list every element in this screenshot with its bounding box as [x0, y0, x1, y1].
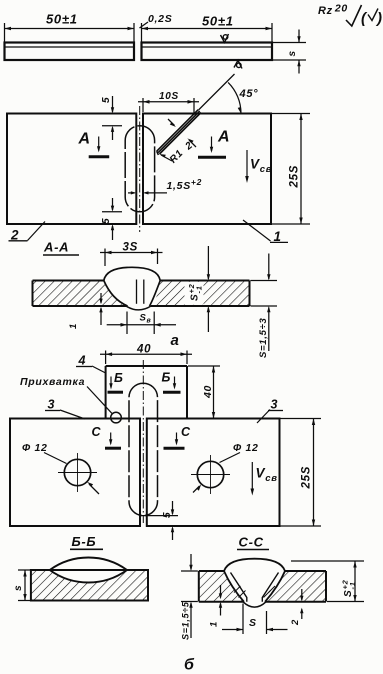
svg-text:A: A [217, 129, 230, 146]
wedge hatch strokes right [264, 586, 276, 598]
svg-text:С: С [92, 425, 102, 439]
joint centerline (dash-dot) [139, 106, 141, 232]
bar outline B-B [31, 570, 148, 601]
wedge hatch strokes left [234, 586, 246, 598]
plate right (top view) [142, 43, 273, 61]
plate 3 right (plan) [147, 419, 280, 527]
dimension 1 C-C [209, 585, 223, 627]
dimension S+2-1 right C-C [291, 561, 364, 602]
VIEW1 [5, 3, 383, 74]
svg-text:Vсв: Vсв [250, 157, 272, 176]
dimension S+2-1 [187, 246, 210, 332]
dimension 2 root C-C [290, 589, 304, 626]
surface roughness Rz20 note [318, 3, 383, 28]
svg-text:(: ( [361, 10, 368, 27]
dimension 5 top [101, 96, 122, 140]
svg-text:): ) [375, 10, 383, 27]
lens outline [50, 557, 127, 582]
svg-text:Б: Б [162, 371, 172, 385]
bar outline [33, 281, 250, 307]
svg-text:3: 3 [48, 398, 56, 412]
svg-text:3S: 3S [123, 242, 138, 254]
section title C-C [237, 535, 269, 550]
weld slot outline view3 (dashed stadium) [129, 383, 158, 515]
weld slot outline (stadium, dashed) [125, 126, 154, 212]
svg-text:А-А: А-А [43, 240, 69, 255]
section title B-B [70, 534, 103, 549]
SECTION-CC [181, 535, 365, 674]
svg-text:Sв: Sв [140, 313, 152, 325]
gap for tolerance text [185, 282, 204, 305]
VIEW2 [7, 74, 310, 244]
dimension Sv root width [107, 312, 176, 335]
angle 45 deg [228, 82, 258, 113]
svg-text:-1: -1 [195, 285, 204, 293]
svg-text:25S: 25S [301, 466, 313, 490]
section marker A left [78, 131, 110, 157]
item label 2 [9, 222, 46, 243]
electrode tip radius R1 callout [159, 148, 185, 166]
plate left (top view) [5, 43, 135, 61]
svg-text:A: A [78, 131, 91, 148]
electrode diameter 2 callout [168, 119, 196, 153]
svg-text:Прихватка: Прихватка [20, 376, 85, 388]
svg-text:50±1: 50±1 [202, 14, 234, 29]
root bulge [126, 306, 151, 310]
dimension 50±1 right [142, 14, 273, 42]
groove face line right [262, 573, 278, 602]
hatched bar C-C right [265, 571, 326, 602]
svg-text:50±1: 50±1 [46, 12, 78, 27]
fusion boundary left [104, 281, 128, 307]
item label 4 [76, 354, 106, 374]
hole right F12 [191, 442, 259, 494]
svg-text:R1: R1 [168, 148, 186, 166]
bar outline C-C [199, 571, 326, 602]
svg-text:5: 5 [101, 218, 112, 224]
section marker B right [162, 371, 181, 393]
svg-text:Ф 12: Ф 12 [22, 442, 48, 454]
dimension 5 bottom [101, 198, 122, 240]
section marker C right [164, 425, 192, 448]
fusion boundary right [150, 281, 161, 307]
plate 2 (left, plan view) [7, 114, 136, 225]
VIEW3 [10, 344, 321, 541]
svg-text:1,5S+2: 1,5S+2 [167, 177, 203, 192]
dimension 5 slot bottom [139, 501, 178, 540]
svg-text:45°: 45° [239, 88, 259, 100]
note S=1,5-5 left C-C [181, 554, 198, 640]
dimension s right [273, 30, 306, 74]
svg-text:Vсв: Vсв [256, 466, 278, 485]
weld cap dome C-C [224, 559, 285, 571]
svg-text:С: С [181, 425, 191, 439]
section title A-A [43, 240, 79, 256]
section marker C left [92, 425, 122, 448]
tack weld lens white [50, 557, 127, 582]
dimension S bottom C-C [222, 604, 288, 635]
svg-text:1: 1 [68, 323, 79, 329]
dimension 1,5S+2 gap [128, 177, 202, 195]
svg-text:5: 5 [101, 97, 112, 103]
SECTION-AA [33, 240, 278, 359]
groove face line left [231, 573, 247, 602]
tack weld callout [20, 376, 112, 414]
svg-text:4: 4 [78, 354, 87, 368]
electrode rod at 45deg [157, 74, 235, 155]
svg-text:Б-Б: Б-Б [72, 534, 97, 549]
fusion boundary right C-C [265, 571, 285, 602]
svg-text:s: s [287, 50, 298, 56]
svg-text:40: 40 [202, 385, 214, 399]
slot channel walls [137, 280, 144, 304]
item label 3 left [45, 398, 85, 420]
hatched plate section left [33, 281, 128, 307]
machining mark top surface [221, 34, 229, 43]
plate 3 left (plan) [10, 419, 140, 527]
SECTION-BB [13, 534, 148, 601]
svg-text:2: 2 [290, 619, 301, 626]
svg-text:S: S [343, 590, 354, 597]
item label 3 right [257, 398, 283, 424]
svg-text:Rz20: Rz20 [318, 3, 348, 18]
svg-text:3: 3 [271, 398, 279, 412]
svg-text:S=1,5÷3: S=1,5÷3 [258, 317, 269, 358]
svg-text:Ф 12: Ф 12 [233, 442, 259, 454]
svg-text:5: 5 [162, 512, 173, 518]
welding direction Vsv view3 [251, 462, 278, 496]
svg-text:40: 40 [136, 344, 151, 356]
section marker A right [198, 129, 230, 158]
svg-text:б: б [184, 657, 195, 674]
hatched plate section right [150, 281, 250, 307]
svg-text:1: 1 [209, 621, 220, 627]
svg-text:2: 2 [183, 140, 195, 153]
dimension 0,2S gap [140, 13, 173, 42]
weld cap dome [104, 267, 160, 280]
svg-text:0,2S: 0,2S [148, 13, 172, 25]
svg-text:а: а [171, 332, 180, 349]
note S=1,5..3 right [251, 254, 278, 359]
dimension 1 root left [68, 293, 103, 329]
hatched bar C-C left [199, 571, 244, 602]
svg-text:-1: -1 [348, 581, 357, 589]
svg-text:Б: Б [114, 371, 124, 385]
tack weld circle [111, 412, 122, 423]
hatched bar B-B [31, 570, 148, 601]
dimension 10S [138, 91, 199, 115]
svg-text:10S: 10S [159, 91, 179, 102]
dimension 3S [100, 242, 163, 267]
item label 1 [243, 220, 288, 244]
run-on tab plate 4 [106, 366, 187, 419]
svg-text:С-С: С-С [239, 535, 264, 550]
joint centerline view3 [142, 360, 144, 523]
welding direction Vsv [245, 150, 272, 183]
weld white area C-C [224, 559, 285, 602]
dimension 40 top [100, 344, 192, 365]
dimension 40 right vertical [188, 366, 220, 419]
machining mark bottom surface [234, 60, 242, 68]
dimension 50±1 left [5, 12, 135, 42]
svg-text:S: S [249, 617, 257, 629]
plate 1 (right, plan view) [143, 114, 271, 225]
svg-text:S=1,5÷5: S=1,5÷5 [181, 601, 191, 640]
svg-text:s: s [13, 585, 24, 591]
hole left F12 [22, 442, 99, 494]
dimension 25S right [272, 114, 310, 225]
root bulge C-C [243, 602, 266, 607]
dimension 25S right view3 [281, 419, 322, 527]
dimension s B-B [13, 570, 30, 601]
svg-text:S: S [190, 294, 201, 301]
svg-text:25S: 25S [289, 165, 301, 189]
section marker B left [108, 371, 124, 392]
fusion boundary left C-C [224, 571, 244, 602]
